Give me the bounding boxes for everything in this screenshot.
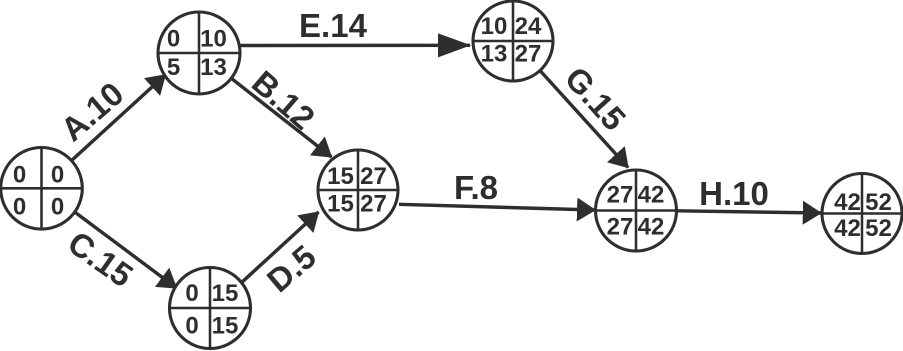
svg-text:52: 52 xyxy=(865,215,892,242)
svg-text:0: 0 xyxy=(185,280,198,307)
svg-text:10: 10 xyxy=(481,13,508,40)
svg-text:52: 52 xyxy=(865,189,892,216)
svg-text:27: 27 xyxy=(360,191,387,218)
svg-text:0: 0 xyxy=(185,313,198,340)
svg-text:0: 0 xyxy=(51,162,64,189)
svg-text:42: 42 xyxy=(638,214,665,241)
svg-text:0: 0 xyxy=(13,162,26,189)
svg-text:27: 27 xyxy=(607,182,634,209)
svg-text:15: 15 xyxy=(327,163,354,190)
svg-text:27: 27 xyxy=(360,163,387,190)
svg-text:5: 5 xyxy=(167,54,180,81)
svg-text:13: 13 xyxy=(200,54,227,81)
svg-text:0: 0 xyxy=(13,194,26,221)
svg-text:0: 0 xyxy=(51,194,64,221)
svg-text:15: 15 xyxy=(327,191,354,218)
svg-text:13: 13 xyxy=(481,41,508,68)
svg-text:42: 42 xyxy=(638,182,665,209)
svg-text:F.8: F.8 xyxy=(454,169,498,206)
svg-text:24: 24 xyxy=(515,13,542,40)
svg-text:H.10: H.10 xyxy=(699,175,769,212)
svg-text:E.14: E.14 xyxy=(299,7,368,44)
svg-text:15: 15 xyxy=(212,313,239,340)
svg-text:27: 27 xyxy=(607,214,634,241)
svg-text:15: 15 xyxy=(212,280,239,307)
svg-text:27: 27 xyxy=(515,41,542,68)
svg-text:42: 42 xyxy=(834,189,861,216)
svg-text:0: 0 xyxy=(167,26,180,53)
svg-text:42: 42 xyxy=(834,215,861,242)
svg-text:10: 10 xyxy=(200,26,227,53)
